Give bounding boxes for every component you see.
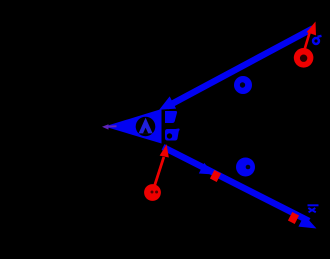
purple arrow at tip <box>106 125 117 127</box>
tiny label bottom-right x-bar <box>308 205 319 212</box>
arrowhead mid lower-ray <box>199 163 217 180</box>
red arrowhead top-right <box>307 20 321 36</box>
red tick 1 on lower ray <box>210 170 221 182</box>
arrowhead end lower-ray <box>298 215 319 234</box>
red tick 2 on lower ray <box>288 212 299 224</box>
label F near vertex <box>165 111 177 123</box>
red arrow top-right stem <box>304 32 310 52</box>
node disc for label A <box>136 117 156 137</box>
red arrowhead center <box>160 143 172 157</box>
wire lower ray <box>163 147 309 221</box>
label sigma near vertex <box>165 129 180 141</box>
marker donut upper <box>234 76 252 94</box>
arrowhead upper-ray toward vertex <box>156 96 176 115</box>
tiny label top-right <box>313 36 321 44</box>
red arrow center stem <box>154 157 164 189</box>
marker donut lower <box>236 158 255 177</box>
red ball <box>144 184 161 201</box>
label A glyph <box>139 118 153 134</box>
wire upper ray <box>167 28 313 106</box>
big vector arrowhead A pointing left <box>105 109 162 144</box>
red ring top-right <box>294 48 314 68</box>
